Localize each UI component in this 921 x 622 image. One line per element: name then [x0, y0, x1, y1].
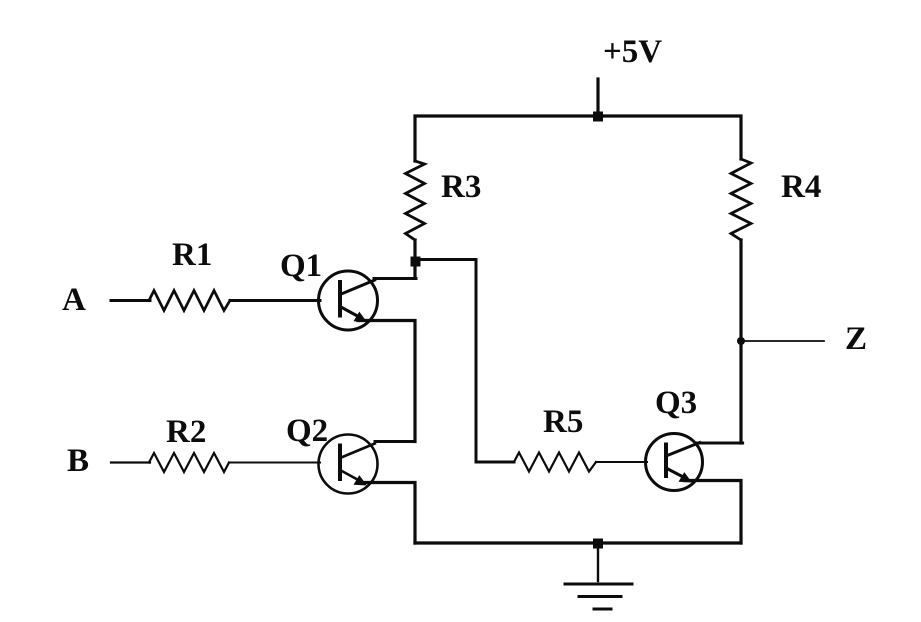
svg-text:R2: R2 [166, 414, 206, 450]
svg-text:Z: Z [845, 321, 867, 357]
svg-text:Q1: Q1 [280, 248, 322, 284]
svg-text:R1: R1 [172, 237, 212, 273]
svg-text:Q3: Q3 [655, 385, 697, 421]
svg-text:B: B [67, 443, 89, 479]
svg-text:Q2: Q2 [286, 413, 328, 449]
svg-text:R5: R5 [543, 404, 583, 440]
svg-text:+5V: +5V [603, 34, 662, 70]
svg-text:R3: R3 [441, 169, 481, 205]
svg-text:R4: R4 [781, 169, 821, 205]
svg-text:A: A [62, 282, 86, 318]
